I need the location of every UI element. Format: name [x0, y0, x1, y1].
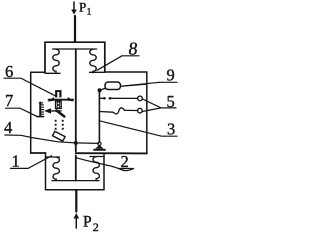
line from box 9 to wall [121, 84, 147, 86]
nozzle box [56, 101, 62, 108]
central stem lower [75, 156, 77, 181]
P2 outlet arrow [74, 213, 80, 228]
contact line 1 [99, 97, 103, 99]
bellows left top (serpentine) [53, 49, 59, 73]
contact circle 2 [138, 108, 143, 113]
wide box left step [31, 72, 45, 153]
force arrow to spring [44, 108, 61, 113]
svg-text:7: 7 [5, 91, 13, 110]
pivot triangle [95, 145, 104, 149]
wide box bottom left segment [31, 152, 46, 154]
contact line 1 right [111, 97, 138, 99]
coil box 9 [105, 82, 121, 90]
bellows 2 (serpentine) [93, 157, 99, 181]
lever top junction dot [98, 88, 102, 92]
bellows 1 (serpentine) [53, 157, 59, 180]
wide box right step [105, 72, 147, 153]
wavy contact line 2 [99, 108, 137, 114]
bellows 8 right top (serpentine) [90, 49, 96, 73]
pivot base [94, 149, 105, 151]
flapper crossbar [49, 99, 74, 101]
bottom inner plate [52, 180, 99, 182]
crossbar left wing [48, 97, 55, 102]
svg-text:4: 4 [4, 118, 12, 137]
lever line from label 4 to pivot [5, 135, 99, 143]
flapper plate lower (tilted) [53, 131, 66, 141]
P1 inlet arrow [71, 2, 77, 15]
svg-text:9: 9 [167, 66, 175, 85]
bottom chamber walls [46, 153, 105, 190]
svg-text:P: P [83, 213, 92, 230]
P2 pipe [75, 191, 77, 212]
flapper plate upper [57, 111, 65, 117]
contact gap dots [103, 97, 106, 100]
dotted link right column [62, 120, 64, 130]
svg-text:1: 1 [87, 7, 92, 17]
bellows left top base [45, 72, 60, 74]
contact circle 1 [138, 96, 143, 101]
setting spring comb (7) [37, 102, 44, 116]
valve bolt (6) [55, 90, 61, 97]
bellows 2 top plate [90, 156, 104, 158]
link dot to box [101, 88, 106, 90]
svg-text:P: P [79, 0, 86, 14]
svg-text:1: 1 [12, 152, 20, 171]
svg-text:2: 2 [93, 220, 99, 234]
bellows 8 base [90, 71, 105, 73]
top chamber top wall [45, 42, 105, 72]
central stem upper [75, 49, 77, 152]
nozzle ring upper [57, 102, 60, 105]
dotted link left column [55, 120, 57, 130]
pivot hinge ring [98, 142, 101, 145]
nozzle ring lower [57, 105, 60, 108]
top inner plate [53, 48, 97, 50]
wide box bottom right segment [76, 152, 147, 154]
P1 pipe [74, 16, 76, 42]
bellows 1 top plate [46, 156, 60, 158]
lever vertical (3) [98, 91, 100, 143]
junction dot on stem [74, 141, 78, 145]
crossbar right wing [67, 97, 74, 102]
